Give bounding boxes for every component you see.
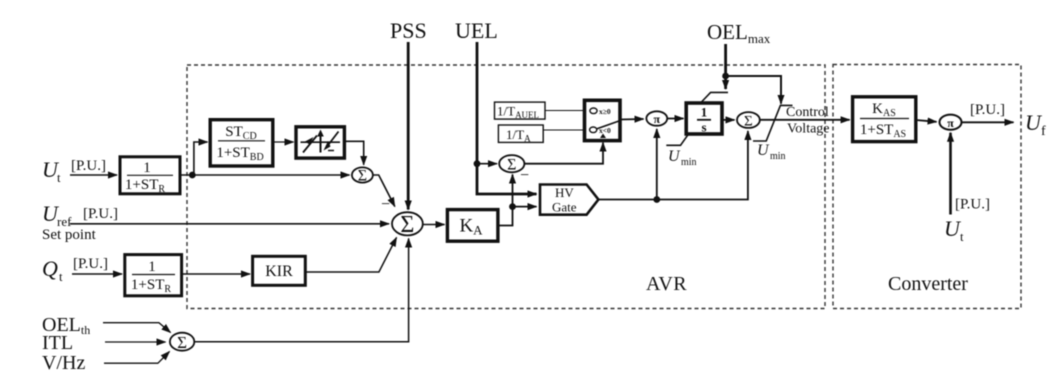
wire S4 output control voltage to KAS [760,119,850,121]
svg-text:[P.U.]: [P.U.] [71,158,106,174]
wire V/Hz to summer S0 [104,352,170,364]
svg-text:s: s [701,120,706,135]
svg-text:HV: HV [555,185,574,200]
svg-text:t: t [59,269,63,284]
multiplier P2 [940,115,962,130]
svg-text:π: π [654,112,661,126]
wire UEL to summer S3 [477,163,497,165]
integrator lower limit mark [666,134,688,145]
svg-text:Set point: Set point [42,227,97,243]
svg-text:min: min [770,151,786,162]
wire branch up to transient gain block [194,142,208,175]
output limiter slash [753,105,793,141]
svg-text:Σ: Σ [177,333,187,352]
block transient gain STCD/(1+STBD) [210,120,273,166]
wire summer S1 to summer S2 [373,175,395,207]
block 1/TAUEL [495,102,546,120]
svg-text:Σ: Σ [507,157,516,174]
svg-text:V/Hz: V/Hz [42,352,85,374]
block switch selector [585,100,621,140]
block KA amplifier [447,210,498,242]
svg-text:x≥0: x≥0 [599,107,611,116]
svg-text:Control: Control [786,105,829,120]
junction UEL node [474,160,481,167]
junction Ut output node [189,172,196,179]
dashed box Converter region [833,65,1021,309]
wire Qt block to KIR [182,273,250,275]
wire limiter to summer S1 top [344,141,363,165]
block KAS converter [853,97,916,142]
multiplier P1 [646,111,667,126]
wire ITL to summer S0 [105,341,166,343]
summer S1 [352,167,373,184]
wire summer S0 to summer S2 bottom [194,239,408,342]
wire Qt input [72,273,122,275]
wire OELmax vertical [724,44,727,89]
junction gate output node [653,196,660,203]
wire KIR to summer S2 [305,238,396,273]
svg-text:U: U [757,142,770,159]
block 1/TA [498,125,543,144]
wire P1 to integrator [667,118,683,120]
svg-text:−: − [381,196,390,213]
svg-text:Σ: Σ [400,212,414,238]
wire UEL vertical [477,42,537,194]
svg-text:f: f [1041,124,1046,139]
svg-text:[P.U.]: [P.U.] [970,102,1005,118]
svg-text:−: − [520,167,529,184]
wire summer S2 to KA [423,224,445,226]
dashed box AVR region [187,65,825,309]
junction KA output node [509,203,516,210]
svg-text:Σ: Σ [744,114,753,130]
wire switch to multiplier P1 [620,118,644,121]
summer S3 [499,155,524,173]
svg-text:t: t [57,170,61,185]
wire Uref to summer S2 [70,223,389,225]
svg-text:AVR: AVR [646,273,687,295]
wire KA output up [498,175,513,226]
svg-text:Gate: Gate [552,200,577,215]
svg-text:PSS: PSS [390,18,427,43]
svg-text:Converter: Converter [888,273,968,295]
svg-text:U: U [668,148,681,165]
svg-text:[P.U.]: [P.U.] [73,256,108,272]
svg-text:Σ: Σ [358,168,367,185]
svg-text:KIR: KIR [265,263,293,280]
wire PSS input [407,42,410,210]
block reactive transducer 1/(1+STR) [125,255,182,296]
svg-text:[P.U.]: [P.U.] [955,197,990,213]
block KIR [253,256,306,285]
wire 1/TAUEL to switch [545,110,585,112]
summer S0 limiters [170,333,194,352]
wire Ut to multiplier P2 bottom [949,133,952,215]
svg-text:π: π [947,116,954,130]
block HV gate [540,185,598,215]
wire integrator to summer S4 [722,119,735,121]
wire 1/TA to switch [543,129,584,131]
wire OEL branch to output limiter [726,76,781,104]
wire Ut input [70,174,117,176]
summer S4 [737,112,760,129]
wire gate node to multiplier P1 bottom [656,129,658,200]
svg-text:ITL: ITL [42,332,73,354]
wire KAS to multiplier P2 [916,120,937,122]
block rate limiter icon [296,127,344,158]
wire Ut block output to summer S1 [180,174,350,176]
svg-text:1: 1 [701,105,708,120]
wire S3 output to switch [524,143,603,164]
block voltage transducer 1/(1+STR) [120,157,180,195]
svg-text:1: 1 [143,160,151,176]
wire P2 output Uf [962,121,1014,123]
svg-text:UEL: UEL [455,18,498,43]
svg-text:1: 1 [148,259,156,275]
wire KA node to HV gate lower input [513,206,537,208]
svg-text:[P.U.]: [P.U.] [83,206,118,222]
wire HV gate output [598,131,748,200]
junction OEL node [722,73,729,80]
block integrator 1/s [686,103,722,135]
summer S2 main [392,212,423,238]
svg-text:Voltage: Voltage [787,122,830,137]
wire OELth to summer S0 [103,323,171,333]
svg-text:min: min [681,157,697,168]
svg-text:Q: Q [42,256,58,281]
integrator upper limit mark [701,92,729,103]
wire STCD block to limiter block [273,141,294,143]
svg-text:t: t [960,229,964,244]
